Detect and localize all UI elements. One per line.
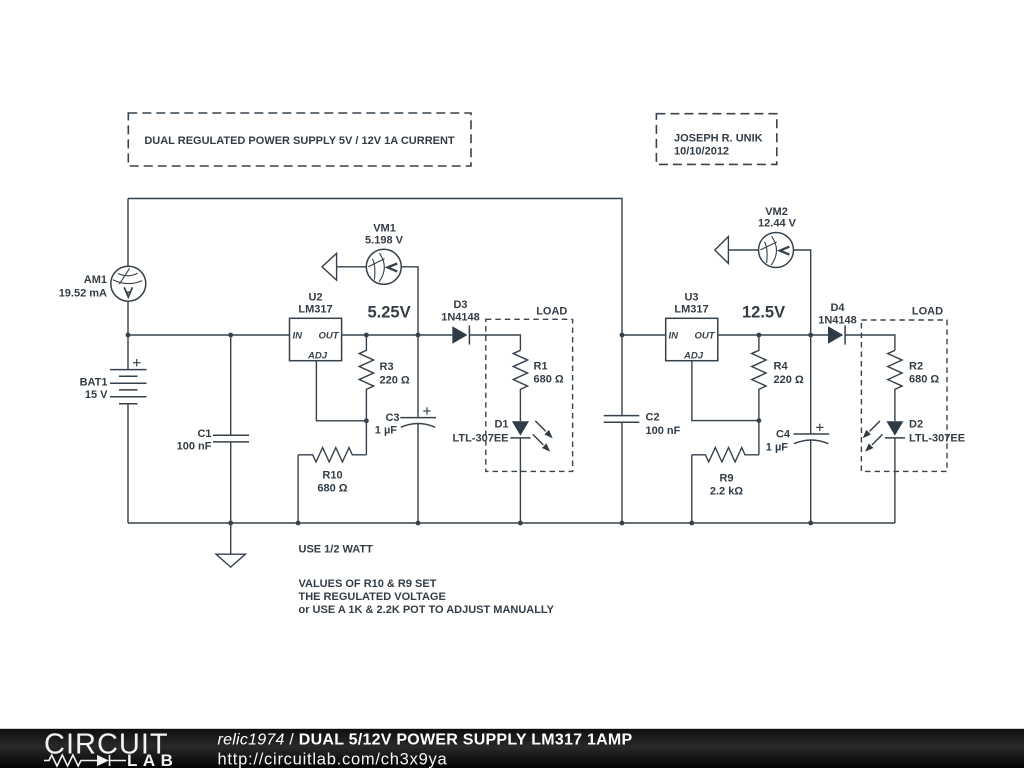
wire probe to VM2 (728, 249, 758, 251)
svg-text:1 µF: 1 µF (766, 442, 789, 454)
label U2 (298, 292, 332, 316)
svg-text:LTL-307EE: LTL-307EE (452, 433, 508, 445)
svg-text:relic1974 / DUAL 5/12V POWER S: relic1974 / DUAL 5/12V POWER SUPPLY LM31… (218, 732, 633, 749)
op-amp U3 LM317 box (666, 318, 718, 361)
wire node to battery (127, 335, 129, 370)
wire C3 upper (417, 335, 419, 418)
svg-text:680 Ω: 680 Ω (534, 374, 564, 386)
node C3 bottom (416, 521, 421, 526)
label R2 (909, 361, 939, 386)
voltmeter VM1 (366, 249, 401, 284)
load box left (486, 319, 573, 471)
resistor R3 (359, 335, 373, 421)
footer logo resistor-diode (44, 755, 126, 766)
label C1 (177, 428, 212, 453)
wire AM1 top (127, 199, 129, 267)
wire U3 out rail (718, 334, 828, 336)
svg-text:VALUES OF R10 & R9 SET: VALUES OF R10 & R9 SET (299, 578, 437, 590)
svg-text:OUT: OUT (694, 331, 715, 342)
wire D4 to load (845, 335, 895, 350)
svg-text:D4: D4 (830, 302, 845, 314)
node C1 bottom (228, 521, 233, 526)
node R4 top (757, 333, 762, 338)
svg-text:OUT: OUT (318, 331, 339, 342)
svg-text:100 nF: 100 nF (177, 441, 212, 453)
node input U3 (620, 333, 625, 338)
svg-text:THE REGULATED VOLTAGE: THE REGULATED VOLTAGE (299, 591, 446, 603)
svg-text:10/10/2012: 10/10/2012 (674, 146, 729, 158)
svg-text:VM2: VM2 (765, 206, 788, 218)
wire node to U3 (622, 334, 666, 336)
wire battery to bottom rail (127, 404, 129, 523)
wire node to R10 (365, 421, 367, 455)
svg-text:DUAL REGULATED POWER SUPPLY 5V: DUAL REGULATED POWER SUPPLY 5V / 12V 1A … (144, 135, 455, 147)
svg-text:R10: R10 (322, 470, 342, 482)
label AM1 (59, 274, 107, 300)
battery BAT1 (110, 359, 147, 404)
ammeter AM1 (111, 266, 146, 301)
diode D4 (828, 325, 845, 344)
label BAT1 (80, 377, 109, 402)
capacitor C4 (794, 424, 830, 444)
footer bar (0, 729, 1024, 768)
node VM2/C4 column (808, 333, 813, 338)
wire C3 lower (417, 424, 419, 523)
svg-text:LTL-307EE: LTL-307EE (909, 433, 965, 445)
wire ground stem (230, 523, 232, 554)
label VM2 (758, 206, 797, 230)
node C4 bottom (808, 521, 813, 526)
svg-text:USE 1/2 WATT: USE 1/2 WATT (299, 544, 374, 556)
label VM1 (365, 223, 404, 247)
svg-text:5.25V: 5.25V (368, 304, 411, 322)
wire VM1 down (401, 267, 418, 335)
svg-text:BAT1: BAT1 (80, 377, 108, 389)
svg-text:or USE A 1K & 2.2K POT TO ADJU: or USE A 1K & 2.2K POT TO ADJUST MANUALL… (299, 604, 555, 616)
node VM1/C3 column (416, 333, 421, 338)
node ADJ junction left (364, 418, 369, 423)
label C4 (766, 429, 791, 454)
svg-text:15 V: 15 V (85, 389, 108, 401)
svg-text:R2: R2 (909, 361, 923, 373)
wire U2 out rail (342, 334, 453, 336)
capacitor C1 (213, 435, 249, 442)
svg-text:220 Ω: 220 Ω (774, 374, 804, 386)
label D4 (818, 302, 857, 327)
label C3 (375, 412, 400, 437)
wire C1 upper (230, 335, 232, 435)
label R9 (710, 473, 743, 498)
svg-text:1N4148: 1N4148 (441, 312, 480, 324)
resistor R10 (298, 448, 366, 462)
svg-text:D3: D3 (453, 299, 467, 311)
svg-text:ADJ: ADJ (683, 350, 704, 361)
label U3 (674, 292, 708, 316)
svg-text:LOAD: LOAD (536, 306, 567, 318)
node R10 bottom (296, 521, 301, 526)
wire D1 to rail (519, 438, 521, 523)
wire node to R9 (758, 421, 760, 455)
wire U2 ADJ (316, 361, 366, 421)
svg-text:1N4148: 1N4148 (818, 315, 857, 327)
svg-text:JOSEPH R. UNIK: JOSEPH R. UNIK (674, 133, 763, 145)
wire AM1 to node (127, 301, 129, 335)
wire bottom rail (128, 522, 895, 524)
svg-text:LOAD: LOAD (912, 306, 943, 318)
svg-text:100 nF: 100 nF (646, 425, 681, 437)
svg-text:220 Ω: 220 Ω (380, 375, 410, 387)
wire D2 to rail (894, 438, 896, 523)
capacitor C3 (400, 407, 436, 427)
svg-text:LM317: LM317 (298, 304, 332, 316)
svg-text:LM317: LM317 (674, 304, 708, 316)
svg-text:IN: IN (669, 331, 680, 342)
ground (216, 554, 245, 567)
svg-text:R1: R1 (534, 361, 548, 373)
annotation title box (128, 113, 471, 166)
node main left (126, 333, 131, 338)
svg-text:U3: U3 (684, 292, 698, 304)
label D3 (441, 299, 480, 324)
svg-text:12.44 V: 12.44 V (758, 218, 797, 230)
svg-text:http://circuitlab.com/ch3x9ya: http://circuitlab.com/ch3x9ya (218, 751, 448, 768)
label R10 (317, 470, 347, 495)
annotation author box (656, 114, 776, 165)
op-amp U2 LM317 box (290, 318, 342, 361)
label C2 (646, 412, 681, 438)
label R1 (534, 361, 564, 386)
wire probe to VM1 (337, 266, 367, 268)
node C2 bottom (620, 521, 625, 526)
svg-text:C3: C3 (385, 412, 399, 424)
svg-text:IN: IN (293, 331, 304, 342)
svg-text:680 Ω: 680 Ω (909, 374, 939, 386)
label R4 (774, 361, 804, 387)
resistor R1 (513, 350, 527, 421)
svg-text:R3: R3 (380, 361, 394, 373)
svg-text:C1: C1 (197, 428, 211, 440)
svg-text:1 µF: 1 µF (375, 425, 398, 437)
diode D3 (452, 325, 469, 344)
wire D3 to load (469, 335, 520, 350)
label D1 (452, 419, 508, 445)
svg-text:D2: D2 (909, 419, 923, 431)
svg-text:R4: R4 (774, 361, 789, 373)
wire top rail (128, 199, 622, 336)
label D2 (909, 419, 965, 445)
node ADJ junction right (757, 418, 762, 423)
svg-text:C2: C2 (646, 412, 660, 424)
wire C2 lower (621, 422, 623, 523)
svg-text:5.198 V: 5.198 V (365, 235, 404, 247)
annotation values note (299, 578, 555, 616)
wire U3 ADJ (692, 361, 759, 421)
wire R9 to rail (691, 455, 693, 523)
wire C2 upper (621, 335, 623, 416)
svg-text:C4: C4 (776, 429, 791, 441)
svg-text:LAB: LAB (127, 751, 178, 768)
svg-text:AM1: AM1 (84, 274, 107, 286)
label R3 (380, 361, 410, 387)
LED D2 (863, 421, 906, 452)
svg-text:U2: U2 (308, 292, 322, 304)
svg-text:VM1: VM1 (373, 223, 396, 235)
voltmeter VM2 (759, 232, 794, 267)
svg-text:19.52 mA: 19.52 mA (59, 288, 107, 300)
node C1 top (228, 333, 233, 338)
svg-text:680 Ω: 680 Ω (317, 483, 347, 495)
svg-text:12.5V: 12.5V (742, 304, 785, 322)
svg-text:2.2 kΩ: 2.2 kΩ (710, 486, 743, 498)
wire C1 lower (230, 442, 232, 523)
wire rail to U2 (128, 334, 290, 336)
node D1 bottom (518, 521, 523, 526)
node R9 bottom (689, 521, 694, 526)
resistor R9 (692, 448, 759, 462)
probe arrow VM1 (322, 253, 337, 280)
svg-text:D1: D1 (494, 419, 508, 431)
resistor R2 (888, 350, 902, 421)
wire C4 upper (810, 335, 812, 434)
svg-text:ADJ: ADJ (307, 350, 328, 361)
wire C4 lower (810, 440, 812, 523)
probe arrow VM2 (715, 237, 729, 264)
node R3 top (364, 333, 369, 338)
LED D1 (510, 421, 552, 452)
wire VM2 down (794, 250, 811, 335)
wire R10 to rail (297, 455, 299, 523)
svg-text:R9: R9 (719, 473, 733, 485)
load box right (861, 320, 947, 471)
resistor R4 (752, 335, 766, 421)
capacitor C2 (604, 416, 640, 423)
